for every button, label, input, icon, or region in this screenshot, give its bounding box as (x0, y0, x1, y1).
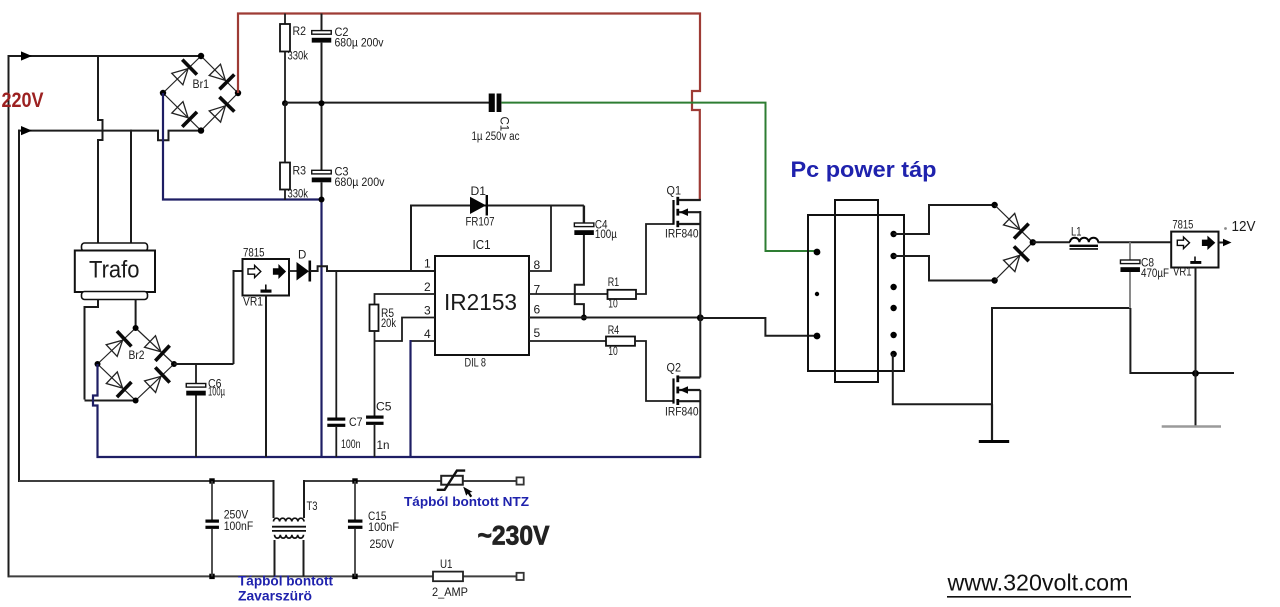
resistor R5 (370, 305, 379, 332)
transistor Q1 channel (676, 197, 679, 227)
label IR2153 (444, 289, 517, 315)
label C1 value (472, 131, 520, 143)
label R5 (381, 308, 394, 320)
wire VR1 input vertical (234, 271, 243, 364)
label VR1 right (1173, 267, 1192, 279)
junction filter bottom left (209, 574, 214, 579)
node C4 on pin6 wire (581, 315, 587, 321)
transformer terminal left 2 small (815, 292, 819, 296)
arrow AC line 1 (21, 51, 32, 60)
node Br1 left (160, 90, 166, 96)
svg-text:2_AMP: 2_AMP (432, 587, 468, 599)
svg-text:www.320volt.com: www.320volt.com (946, 570, 1128, 596)
label R3 value 330k (288, 189, 309, 201)
bridge rectifier Br1 diode top-left (163, 56, 201, 93)
VR1 ground symbol (261, 285, 272, 293)
wire C6 bottom lead (195, 396, 197, 458)
label 12V (1232, 218, 1256, 235)
label IC1 (473, 238, 491, 252)
transformer terminal right 3 (890, 284, 896, 290)
svg-text:VR1: VR1 (243, 297, 263, 309)
svg-text:Pc power táp: Pc power táp (791, 157, 937, 182)
capacitor C4 (574, 223, 594, 235)
wire C4 bottom lead with jog (575, 235, 584, 318)
label R5 value 20k (381, 318, 396, 330)
bridge rectifier Br2 diode top-right (136, 328, 174, 364)
svg-text:Br1: Br1 (193, 79, 210, 91)
wire C7 bottom lead (335, 427, 337, 457)
wire C8 bottom lead (1129, 272, 1131, 308)
transformer terminal left 3 (814, 333, 821, 340)
label ~230V (478, 521, 550, 551)
junction filter bottom right (352, 574, 357, 579)
capacitor C2 (312, 31, 332, 43)
junction filter top left (209, 478, 214, 483)
wire C6 top lead (195, 364, 197, 384)
node mid divider at C2 (319, 100, 325, 106)
svg-text:VR1: VR1 (1173, 267, 1192, 279)
label 220V (2, 88, 45, 112)
transformer terminal left 1 (814, 249, 821, 256)
wire AC line 2 horizontal with hop under node (18, 131, 200, 141)
cursor arrow artifact (463, 487, 472, 498)
wire AC line 1 top horizontal (8, 55, 201, 57)
label 7815 left (243, 248, 265, 260)
svg-text:R3: R3 (293, 166, 307, 178)
terminal filter top right (517, 477, 524, 484)
VR1 right ground symbol (1190, 257, 1201, 264)
svg-text:3: 3 (424, 304, 431, 318)
wire secondary top to upper diode (894, 205, 993, 234)
label D (298, 250, 306, 262)
wire C15 top lead (354, 481, 356, 520)
pin 4 label (424, 327, 431, 341)
transformer terminal right 6 (890, 351, 896, 357)
svg-text:7815: 7815 (1172, 220, 1193, 232)
wire L1 to VR1 input (1098, 241, 1172, 243)
label C4 value 100u (595, 229, 617, 241)
svg-text:5: 5 (534, 326, 541, 340)
label left cap 250V (224, 510, 249, 522)
svg-text:330k: 330k (288, 189, 309, 201)
label Trafo (89, 257, 140, 284)
label www.320volt.com (946, 570, 1131, 597)
transistor Q2 source lead (679, 400, 701, 402)
label C8 value 470uF (1141, 268, 1169, 280)
svg-text:Q1: Q1 (667, 184, 682, 198)
transformer terminal right 5 (890, 332, 896, 338)
label C7 (349, 417, 363, 429)
transistor Q1 drain lead (679, 199, 701, 201)
svg-text:100nF: 100nF (224, 521, 254, 533)
node output ground (1192, 370, 1199, 377)
wire AC1 to Trafo primary with jog (98, 55, 103, 244)
wire pin4 (411, 340, 436, 342)
wire VR1 right ground down (1195, 268, 1197, 427)
node output diode junction (1030, 239, 1036, 245)
capacitor C3 (312, 170, 332, 182)
resistor R1 (608, 290, 637, 299)
wire pin6 to node (529, 317, 700, 319)
svg-text:IC1: IC1 (473, 238, 491, 252)
wire C2 to mid node (321, 43, 323, 171)
wire navy C3 junction down to common rail (320, 200, 322, 459)
svg-text:IRF840: IRF840 (665, 229, 699, 241)
transistor Q2 body lead with arrow (679, 386, 701, 394)
wire R1 to Q1 gate (636, 224, 673, 294)
label Br2 (129, 350, 145, 362)
label C5 (376, 402, 392, 414)
ground output gray bar (1162, 425, 1221, 428)
wire green C1 to transformer (501, 103, 816, 251)
VR1 right output arrow filled (1203, 237, 1215, 249)
wire C7 top lead (335, 271, 337, 418)
label C6 value (208, 387, 225, 399)
svg-text:100n: 100n (341, 439, 361, 451)
label C15 250V (370, 539, 395, 551)
label C6 (208, 379, 222, 391)
svg-text:100µ: 100µ (208, 387, 225, 399)
resistor R4 (606, 337, 635, 346)
label R2 (293, 26, 307, 38)
choke T3 lower winding (275, 535, 304, 577)
wire pin7 (529, 293, 608, 295)
wire AC line 1 left vertical (8, 55, 10, 577)
wire mid node horizontal to C1 (285, 102, 489, 104)
transformer Trafo body (75, 251, 155, 293)
wire Trafo secondary right to Br2 top (135, 300, 137, 329)
label Q2 (667, 361, 682, 375)
wire R3 to navy bus (284, 190, 286, 201)
node Br2 left (95, 361, 101, 367)
op-amp IC1 body (435, 256, 529, 355)
wire D1 anode vertical to pin1 (410, 205, 412, 272)
label C4 (595, 220, 608, 232)
junction filter top right (352, 478, 357, 483)
wire C15 bottom lead (354, 529, 356, 576)
svg-text:10: 10 (608, 346, 618, 358)
pin 3 label (424, 304, 431, 318)
transformer core inner rect (835, 200, 878, 382)
wire pin4 navy to rail (409, 340, 411, 457)
label C15 100nF (368, 522, 399, 534)
label R3 (293, 166, 307, 178)
svg-text:680µ 200v: 680µ 200v (335, 38, 384, 50)
label C3 value (335, 177, 385, 189)
svg-text:FR107: FR107 (466, 217, 495, 229)
label VR1 left (243, 297, 263, 309)
transistor Q2 channel (676, 375, 679, 405)
wire filter top right (304, 480, 517, 482)
wire navy Br2 left vertex to common rail with hop (93, 364, 98, 458)
wire Trafo secondary left (85, 300, 99, 400)
node Br2 top (133, 325, 139, 331)
wire R5 bottom to C5 (374, 331, 376, 416)
terminal filter bottom right (517, 573, 524, 580)
diode output lower (995, 242, 1033, 280)
wire Trafo secondary left to Br2 bottom (85, 400, 137, 402)
bridge rectifier Br1 diode bottom-left (163, 93, 201, 131)
transformer Trafo top flange (82, 243, 148, 251)
capacitor C5 (366, 416, 384, 425)
capacitor C6 (186, 384, 206, 396)
label R1 (608, 277, 620, 289)
wire Q2 source down to rail (699, 390, 701, 458)
node Br2 right (171, 361, 177, 367)
svg-text:L1: L1 (1071, 227, 1082, 239)
label FR107 (466, 217, 495, 229)
pin 6 label (534, 303, 541, 317)
wire filter bottom (9, 575, 434, 577)
label Tapbol bontott NTZ (404, 494, 529, 509)
svg-text:220V: 220V (2, 88, 45, 112)
wire pin8 branch (529, 206, 551, 272)
wire left cap top lead (211, 481, 213, 520)
svg-text:7815: 7815 (243, 248, 265, 260)
svg-text:Tápból bontott: Tápból bontott (238, 574, 334, 589)
svg-text:10: 10 (608, 299, 618, 311)
pin 5 label (534, 326, 541, 340)
bridge rectifier Br1 diode bottom-right (201, 93, 238, 131)
label U1 (440, 559, 453, 571)
wire filter top (19, 480, 274, 482)
svg-text:D1: D1 (471, 186, 487, 198)
transformer Trafo bottom flange (82, 292, 148, 300)
transistor Q1 body lead with arrow (679, 208, 701, 216)
svg-text:Br2: Br2 (129, 350, 145, 362)
svg-text:C5: C5 (376, 402, 392, 414)
VR1 output arrow filled (274, 265, 286, 277)
svg-text:Trafo: Trafo (89, 257, 140, 284)
wire pin3 to R5 bottom (375, 318, 436, 342)
wire AC2 to Trafo primary (130, 130, 132, 244)
choke T3 core (272, 527, 306, 531)
svg-text:T3: T3 (307, 501, 318, 513)
wire Br2 right to VR1 input (174, 363, 234, 365)
svg-text:470µF: 470µF (1141, 268, 1169, 280)
thermistor NTC diagonal (437, 471, 465, 490)
transformer terminal right 4 (890, 305, 896, 311)
svg-text:250V: 250V (224, 510, 249, 522)
bridge rectifier Br2 diode bottom-left (98, 364, 136, 401)
thermistor NTC body (441, 476, 463, 485)
svg-text:R1: R1 (608, 277, 620, 289)
bridge rectifier Br1 diode top-right (201, 56, 238, 93)
label Br1 (193, 79, 210, 91)
transformer body outer rect (808, 215, 904, 371)
svg-text:6: 6 (534, 303, 541, 317)
wire pin2 to R5 (375, 294, 436, 305)
wire navy common rail (97, 456, 701, 458)
svg-text:Zavarszürö: Zavarszürö (238, 589, 312, 604)
wire secondary return (893, 308, 1131, 404)
capacitor C15 (348, 520, 363, 529)
ground secondary center (979, 404, 1009, 441)
label R1 value 10 (608, 299, 618, 311)
svg-text:DIL 8: DIL 8 (465, 358, 487, 370)
wire VR1 right output arrow (1219, 239, 1232, 247)
wire node to transformer with jog (700, 318, 816, 336)
svg-text:100µ: 100µ (595, 229, 617, 241)
node mid divider at R2 (282, 100, 288, 106)
label C2 (335, 27, 349, 39)
svg-text:IRF840: IRF840 (665, 407, 699, 419)
label C3 (335, 167, 349, 179)
transformer terminal right 2 (890, 253, 896, 259)
svg-text:Q2: Q2 (667, 361, 682, 375)
transistor Q1 source lead (679, 223, 701, 225)
capacitor C1 plates (489, 94, 502, 113)
svg-text:1µ 250v ac: 1µ 250v ac (472, 131, 520, 143)
node upper diode anode (991, 202, 997, 208)
label Tapbol bontott (238, 574, 334, 589)
node half-bridge (697, 314, 704, 321)
svg-text:12V: 12V (1232, 218, 1256, 235)
svg-text:20k: 20k (381, 318, 396, 330)
label T3 (307, 501, 318, 513)
wire D to IC pin1 with hop over navy (310, 266, 435, 271)
label Zavarszuro (238, 589, 312, 604)
wire red rail to R2 (284, 14, 286, 25)
label C8 (1141, 258, 1154, 270)
label Pc power tap (791, 157, 937, 182)
svg-text:R4: R4 (608, 325, 620, 337)
wire secondary 2 to lower diode (894, 256, 993, 281)
resistor R2 (280, 24, 290, 52)
label R4 (608, 325, 620, 337)
voltage regulator VR1 right body (1171, 232, 1218, 268)
svg-text:250V: 250V (370, 539, 395, 551)
arrow AC line 2 (21, 126, 32, 135)
label Q1 IRF840 (665, 229, 699, 241)
wire navy Br1 left to C3 junction (163, 93, 322, 200)
VR1 right input arrow open (1177, 237, 1189, 249)
wire Q1 source down to node (699, 211, 701, 318)
label Q2 IRF840 (665, 407, 699, 419)
node lower diode anode (991, 277, 997, 283)
wire VR1 ground to rail (265, 296, 267, 458)
label C7 value 100n (341, 439, 361, 451)
wire R2 to mid node (284, 52, 286, 105)
label C15 (368, 511, 387, 523)
node Br2 bottom (133, 398, 139, 404)
transistor Q1 gate bar (672, 200, 674, 225)
node navy bus at C3 (319, 197, 325, 203)
wire mid node to R3 (284, 103, 286, 163)
svg-text:R2: R2 (293, 26, 307, 38)
pin 7 label (534, 283, 541, 297)
capacitor line filter left 100nF (205, 520, 219, 529)
label C2 value (335, 38, 384, 50)
wire diode junction to L1 (1033, 241, 1070, 243)
svg-text:2: 2 (424, 280, 431, 294)
diode output upper (995, 205, 1033, 242)
label R4 value 10 (608, 346, 618, 358)
VR1 input arrow open (248, 265, 261, 277)
wire left cap bottom lead (211, 529, 213, 576)
node Br1 right (235, 90, 241, 96)
wire red positive rail (238, 14, 700, 201)
capacitor C7 (327, 418, 345, 427)
node Br1 top (198, 53, 204, 59)
label C5 value 1n (377, 440, 390, 452)
fuse U1 (433, 572, 463, 582)
wire node down to Q2 drain (699, 318, 701, 378)
node Br1 bottom (198, 127, 204, 133)
bridge rectifier Br2 diode bottom-right (136, 364, 174, 401)
svg-text:C7: C7 (349, 417, 363, 429)
label C1 rotated (498, 117, 510, 132)
svg-text:330k: 330k (288, 51, 309, 63)
svg-text:680µ 200v: 680µ 200v (335, 177, 385, 189)
label 12V dot (1224, 227, 1227, 230)
wire C4 top lead (583, 206, 585, 224)
wire output return down (1130, 308, 1234, 373)
svg-text:U1: U1 (440, 559, 453, 571)
wire filter bottom right (463, 575, 517, 577)
transistor Q2 drain lead (679, 376, 701, 378)
svg-text:C1: C1 (498, 117, 510, 132)
wire R4 to Q2 gate (635, 341, 673, 401)
pin 1 label (424, 257, 431, 271)
svg-text:D: D (298, 250, 306, 262)
label L1 (1071, 227, 1082, 239)
label DIL 8 (465, 358, 487, 370)
transistor Q2 gate bar (672, 378, 674, 403)
label Q1 (667, 184, 682, 198)
bridge rectifier Br2 diode top-left (98, 328, 136, 364)
wire C8 top lead (1129, 242, 1131, 260)
capacitor C8 (1120, 260, 1140, 272)
svg-text:1: 1 (424, 257, 431, 271)
diode D (297, 261, 310, 282)
wire AC line 2 left vertical (18, 130, 20, 482)
label R2 value 330k (288, 51, 309, 63)
label 7815 right (1172, 220, 1193, 232)
svg-text:100nF: 100nF (368, 522, 399, 534)
svg-text:~230V: ~230V (478, 521, 550, 551)
pin 2 label (424, 280, 431, 294)
transformer terminal right 1 (890, 231, 896, 237)
wire D1 row (411, 205, 584, 207)
svg-text:8: 8 (534, 258, 541, 272)
wire C3 to navy bus (321, 182, 323, 199)
choke T3 upper winding (274, 480, 305, 522)
label 2_AMP (432, 587, 468, 599)
voltage regulator VR1 body (243, 259, 290, 296)
svg-text:Tápból bontott NTZ: Tápból bontott NTZ (404, 494, 529, 509)
wire C5 bottom lead (374, 425, 376, 457)
label left cap 100nF (224, 521, 254, 533)
resistor R3 (280, 163, 290, 190)
svg-text:4: 4 (424, 327, 431, 341)
label D1 (471, 186, 487, 198)
wire red rail to C2 (321, 14, 323, 32)
wire pin5 (529, 340, 606, 342)
pin 8 label (534, 258, 541, 272)
inductor L1 (1070, 238, 1099, 249)
svg-text:1n: 1n (377, 440, 390, 452)
wire VR1 out to D (289, 270, 297, 272)
diode D1 (470, 195, 487, 216)
svg-text:IR2153: IR2153 (444, 289, 517, 315)
